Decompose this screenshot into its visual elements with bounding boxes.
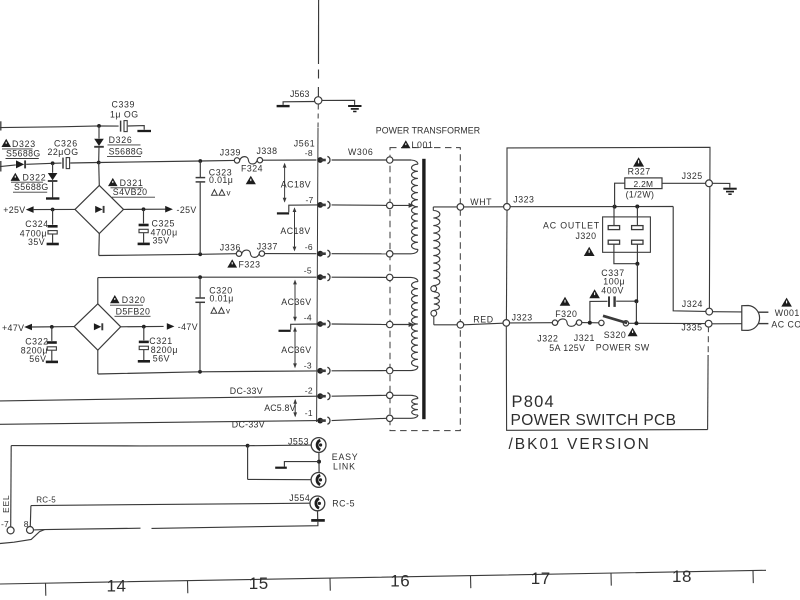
svg-text:D322: D322 (23, 173, 47, 183)
ground chassis under J554 (317, 511, 319, 519)
connector J561 body line (317, 105, 319, 129)
transformer primary tap 2 (431, 310, 437, 316)
wire R327 to J325 (662, 182, 706, 184)
svg-text:AC18V: AC18V (281, 179, 311, 189)
svg-text:F324: F324 (241, 163, 263, 173)
transformer tap pin -4 (393, 324, 409, 326)
svg-text:W001: W001 (775, 308, 800, 318)
capacitor C321 (143, 327, 145, 341)
svg-text:/BK01 VERSION: /BK01 VERSION (509, 436, 651, 453)
ground chassis left of J563 (277, 105, 290, 107)
svg-text:J323: J323 (513, 194, 534, 204)
svg-text:J563: J563 (290, 89, 309, 99)
svg-text:J338: J338 (257, 146, 278, 156)
svg-text:RC-5: RC-5 (332, 498, 355, 508)
wire WHT across PCB (510, 206, 673, 208)
P804 power switch PCB box (507, 147, 710, 308)
capacitor C339 (120, 121, 122, 132)
wire junction to C323 column / J339 (99, 160, 235, 162)
wire left edge to D323 (0, 161, 2, 172)
svg-text:-5: -5 (304, 266, 312, 276)
svg-text:-1: -1 (305, 408, 313, 418)
outlet blade (632, 240, 643, 244)
svg-text:C339: C339 (112, 100, 135, 110)
wire W306 pin -8 to transformer (332, 159, 387, 161)
wire to pin -6 (265, 253, 317, 255)
label AC18V lower (294, 208, 296, 250)
wire RC-5 riser (29, 506, 32, 527)
ground chassis right of C339 (137, 130, 151, 132)
svg-text:J339: J339 (220, 147, 241, 157)
ruler tick (329, 578, 331, 591)
svg-text:POWER SW: POWER SW (596, 342, 650, 352)
wire pin -7 to ground (289, 205, 317, 212)
outlet blade (632, 226, 643, 230)
label AC5.8V (294, 400, 296, 416)
capacitor C337 (590, 301, 608, 322)
ground chassis under C325 (138, 243, 150, 246)
svg-text:D323: D323 (12, 139, 36, 149)
label -25V arrow (124, 208, 166, 210)
connector easy link lower (311, 473, 326, 488)
wire J338 to pin -8 (263, 159, 317, 161)
AC outlet J320 (603, 217, 651, 252)
transformer terminal 8 (387, 415, 393, 421)
svg-text:16: 16 (390, 572, 410, 591)
diode D323 (16, 160, 24, 168)
capacitor C323 (199, 161, 201, 177)
wire outlet top-right lead (636, 207, 638, 226)
svg-text:-6: -6 (305, 242, 313, 252)
svg-text:-25V: -25V (177, 205, 197, 215)
bridge rectifier D321 (75, 186, 124, 234)
label AC18V upper (284, 164, 286, 202)
node wire2 / C323 column (198, 159, 202, 163)
wire W306 pin -7 to transformer (332, 204, 387, 207)
svg-text:RC-5: RC-5 (36, 496, 56, 505)
wire diagonal to left edge (0, 530, 45, 544)
transformer primary winding (433, 206, 457, 208)
transformer terminal 7 (387, 392, 393, 398)
svg-text:P804: P804 (512, 393, 555, 411)
wire gap segment (45, 528, 141, 529)
wire outlet to C337 node (636, 264, 638, 302)
wire top vertical to J563 (318, 0, 320, 64)
svg-text:LINK: LINK (333, 461, 356, 471)
ruler tick (187, 581, 189, 594)
wire to chassis ground (284, 462, 319, 467)
power transformer L001 dashed box (390, 148, 460, 431)
node bridge top column (97, 161, 101, 165)
transformer terminal 6 (387, 367, 393, 373)
wire to J553 (11, 445, 247, 447)
ground earth at J325 (723, 188, 736, 190)
svg-text:17: 17 (531, 569, 551, 588)
transformer secondary winding AC36V (393, 276, 411, 278)
svg-text:R327: R327 (628, 167, 651, 177)
label -47V arrow (121, 325, 164, 327)
transformer terminal RED (457, 322, 464, 329)
svg-text:J335: J335 (681, 323, 702, 333)
wire RED to J323 (464, 323, 503, 325)
svg-text:W306: W306 (348, 147, 373, 157)
svg-text:-8: -8 (305, 148, 313, 158)
transformer terminal 1 (387, 157, 393, 163)
wire WHT down right side to J324 (673, 207, 705, 312)
svg-text:35V: 35V (153, 236, 170, 246)
wire outlet top-left lead (613, 207, 615, 226)
svg-text:14: 14 (107, 576, 127, 595)
capacitor C320 column (199, 277, 201, 297)
wire EEL riser (10, 446, 13, 527)
wire J554 ground to left (152, 522, 318, 529)
svg-text:D320: D320 (122, 295, 146, 305)
wire W306 pin -5 to transformer (332, 276, 387, 278)
wire W306 pin -2 to transformer (332, 394, 387, 397)
transformer secondary winding AC5.8V (393, 394, 411, 396)
transformer terminal 4 (387, 274, 393, 280)
wire J324 to plug (713, 311, 742, 313)
svg-text:J323: J323 (512, 313, 533, 323)
wire left column down to bridge D320 (97, 278, 99, 304)
svg-text:AC OUTLET: AC OUTLET (543, 220, 600, 230)
wire J325 to ground (712, 183, 729, 187)
svg-text:-3: -3 (304, 361, 312, 371)
resistor R327 (615, 183, 625, 206)
svg-text:POWER TRANSFORMER: POWER TRANSFORMER (376, 125, 480, 135)
svg-text:J561: J561 (294, 139, 315, 149)
AC plug W001 (742, 306, 760, 331)
wire D323 to C326 (26, 163, 61, 164)
ground chassis under C324 (47, 243, 59, 246)
wire bridge bottom to fuse F323 (99, 254, 237, 256)
svg-text:J325: J325 (682, 171, 703, 181)
svg-text:5A 125V: 5A 125V (549, 343, 585, 353)
svg-text:+47V: +47V (2, 323, 24, 333)
fuse F320 (560, 297, 571, 306)
diode D326 (98, 126, 100, 139)
svg-text:400V: 400V (601, 286, 624, 296)
ruler tick (610, 573, 612, 586)
transformer terminal WHT (457, 204, 464, 211)
svg-text:EEL: EEL (1, 495, 11, 513)
svg-text:56V: 56V (153, 354, 170, 364)
diode D322 (52, 163, 54, 173)
wire J553 branch down (247, 446, 249, 480)
svg-text:S5688G: S5688G (109, 146, 144, 156)
svg-text:-7: -7 (306, 195, 314, 205)
wire W306 pin -6 to transformer (332, 253, 387, 255)
svg-text:S320: S320 (604, 330, 627, 340)
svg-text:-4: -4 (304, 313, 312, 323)
ground chassis under C321 (138, 360, 150, 363)
svg-text:-2: -2 (305, 385, 313, 395)
svg-text:D326: D326 (109, 135, 133, 145)
wire J323 to fuse F320 (510, 322, 553, 324)
transformer terminal 3 (387, 251, 393, 257)
ground earth right of J563 (348, 105, 361, 107)
wire J563 left (283, 102, 314, 105)
svg-text:-47V: -47V (178, 322, 198, 332)
svg-text:J337: J337 (257, 241, 278, 251)
svg-text:J321: J321 (574, 333, 595, 343)
outlet blade (608, 226, 619, 230)
wire C339 right to ground (128, 126, 144, 130)
wire WHT to J323 (464, 206, 504, 208)
transformer secondary winding AC18V (393, 159, 411, 161)
label AC36V upper (294, 281, 296, 321)
svg-text:2.2M: 2.2M (633, 179, 653, 189)
ruler tick (752, 571, 754, 584)
svg-text:56V: 56V (29, 354, 46, 364)
svg-text:35V: 35V (28, 237, 45, 247)
wire J563 right (322, 100, 355, 105)
wire J335 to plug (712, 323, 742, 325)
svg-text:J554: J554 (289, 493, 310, 503)
label AC36V lower (294, 328, 296, 367)
svg-text:D5FB20: D5FB20 (116, 306, 151, 316)
bridge rectifier D320 (74, 304, 121, 350)
svg-text:RED: RED (473, 315, 493, 325)
svg-text:POWER SWITCH PCB: POWER SWITCH PCB (511, 412, 677, 429)
svg-text:AC36V: AC36V (281, 297, 311, 307)
svg-text:+25V: +25V (3, 205, 25, 215)
wire left edge to pin -1 (0, 421, 318, 425)
wire bridge D320 bottom to pin -3 rail (97, 350, 99, 374)
svg-text:22μOG: 22μOG (48, 147, 79, 157)
svg-text:(1/2W): (1/2W) (626, 189, 655, 199)
ground chassis under C322 (46, 361, 58, 364)
svg-text:F320: F320 (555, 309, 577, 319)
svg-text:0.01μ: 0.01μ (210, 294, 234, 304)
capacitor C322 (51, 327, 53, 341)
node D322/C326 junction (51, 161, 55, 165)
ruler line (0, 570, 766, 584)
svg-text:AC CORD: AC CORD (771, 320, 800, 330)
svg-text:v: v (226, 307, 230, 316)
node C324 junction (51, 208, 55, 212)
wire bridge bottom down (98, 234, 101, 256)
wire to J554 (31, 503, 310, 505)
capacitor C325 (143, 209, 145, 223)
svg-text:J320: J320 (576, 231, 597, 241)
wire stub from pin 8 (33, 529, 44, 531)
wire C326 to bridge column (70, 162, 99, 165)
junction node at D326 top (97, 124, 101, 128)
svg-text:F323: F323 (239, 259, 261, 269)
wire between easy link jacks (318, 453, 320, 473)
svg-text:J553: J553 (288, 437, 309, 447)
svg-text:1μ OG: 1μ OG (110, 110, 139, 120)
svg-text:AC5.8V: AC5.8V (264, 403, 296, 413)
wire switch to J335 (629, 322, 706, 324)
svg-text:AC36V: AC36V (281, 345, 311, 355)
svg-text:v: v (227, 189, 231, 198)
svg-text:18: 18 (672, 567, 692, 586)
transformer core (422, 159, 425, 419)
switch S320 POWER SW (599, 320, 604, 325)
wire W306 pin -1 to transformer (332, 418, 387, 420)
svg-text:J324: J324 (682, 299, 703, 309)
wire pin -5 rail (98, 276, 317, 278)
svg-text:AC18V: AC18V (280, 226, 310, 236)
svg-text:15: 15 (249, 574, 269, 593)
ground chassis under D322 (46, 197, 59, 199)
wire outlet bottom leads (614, 244, 638, 264)
wire W306 pin -4 to transformer (332, 323, 387, 326)
svg-text:S4VB20: S4VB20 (113, 187, 148, 197)
capacitor C326 (62, 158, 64, 169)
wire left edge to pin -2 (0, 396, 318, 401)
transformer terminal 5 (387, 321, 393, 327)
transformer terminal 2 (387, 202, 393, 208)
svg-text:L001: L001 (412, 140, 434, 150)
wire pin -4 to ground (291, 324, 317, 330)
outlet blade (608, 240, 619, 244)
svg-text:S5688G: S5688G (14, 182, 49, 192)
transformer tap pin -7 (393, 204, 409, 206)
wire fuse to switch (582, 322, 599, 324)
svg-text:S5688G: S5688G (6, 148, 41, 158)
ruler tick (45, 583, 47, 596)
svg-text:0.01μ: 0.01μ (209, 175, 233, 185)
transformer primary tap 1 (431, 286, 437, 292)
wire W306 pin -3 to transformer (332, 370, 387, 372)
ruler tick (470, 576, 472, 589)
wire W left edge to C339 (0, 121, 2, 130)
svg-text:WHT: WHT (470, 197, 492, 207)
svg-text:DC-33V: DC-33V (230, 386, 263, 396)
capacitor C324 (52, 210, 54, 225)
